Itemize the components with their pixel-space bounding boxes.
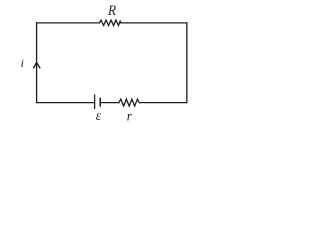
battery long plate [94,95,96,108]
wire: top-left segment [37,22,100,24]
svg-text:ε: ε [96,108,102,123]
wire: left vertical [36,23,38,103]
resistor r [119,99,139,106]
wire: bottom-right segment [139,102,187,104]
wire: right vertical [186,23,188,103]
battery short plate [99,98,101,106]
resistor R [99,20,121,25]
battery cell (emf source) [95,95,101,108]
svg-text:R: R [107,4,116,20]
current arrow head [34,63,40,68]
svg-text:r: r [127,108,133,123]
wire: top-right segment [121,22,187,24]
wire: bottom middle segment [100,102,119,104]
svg-text:i: i [21,56,24,70]
wire: bottom-left segment [37,102,95,104]
